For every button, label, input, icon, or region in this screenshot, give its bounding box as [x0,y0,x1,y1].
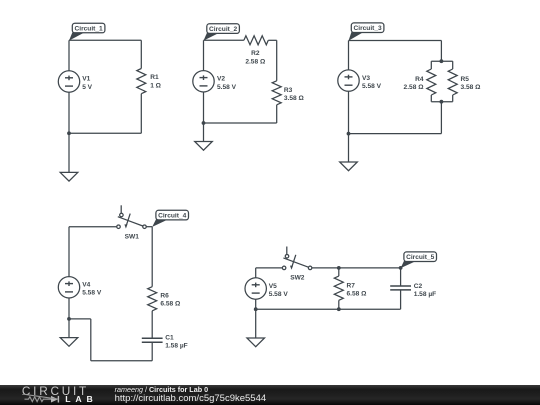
net flag Circuit_5 [401,252,437,268]
voltage source V2 [193,71,214,92]
wire c2 top left [204,39,244,41]
wire c3 parallel bottom bar [431,101,452,103]
wire c5 R7 lead bottom [338,300,340,309]
wire c4 left down [90,319,92,361]
svg-text:5.58 V: 5.58 V [269,291,289,298]
footer title line [115,386,208,393]
svg-text:V4: V4 [82,282,90,289]
junction c3 parallel top [440,59,444,63]
label R3 [284,87,305,102]
wire c5 V5 lead bottom [255,299,257,309]
svg-text:SW2: SW2 [290,275,305,282]
resistor R3 [272,81,281,105]
wire c3 left lower [348,91,350,133]
svg-text:5.58 V: 5.58 V [82,290,102,297]
svg-text:V1: V1 [82,76,90,83]
label SW2 [290,275,305,282]
wire c2 top right [268,39,276,41]
label V1 [82,76,92,91]
wire c3 ground stem [348,134,350,162]
wire c2 right upper [276,40,278,81]
svg-text:R6: R6 [160,293,169,300]
wire c4 left upper [68,227,70,277]
wire c3 R4 lead top [430,61,432,69]
label V3 [362,75,382,90]
svg-text:R5: R5 [461,76,470,83]
svg-text:SW1: SW1 [125,233,140,240]
wire c3 top [349,40,442,42]
wire c1 right lower [140,94,142,134]
logo resistor-diode glyph [22,394,72,405]
svg-text:6.58 Ω: 6.58 Ω [347,291,368,298]
wire c3 mid upper [440,41,442,62]
wire c2 ground stem [203,123,205,142]
net flag Circuit_3 [349,23,384,41]
resistor R5 [448,69,457,95]
junction c3 parallel bottom [440,100,444,104]
wire c3 bottom [349,133,442,135]
wire c3 R4 lead bottom [430,95,432,102]
ground [340,162,358,171]
wire c3 R5 lead bottom [452,95,454,102]
wire c5 ground stem [255,309,257,338]
svg-text:1 Ω: 1 Ω [150,82,161,89]
resistor R7 [334,276,343,300]
voltage source V4 [58,277,79,298]
junction c5 R7 top [337,266,341,270]
svg-text:C1: C1 [165,335,174,342]
label R7 [347,283,368,298]
svg-text:1.58 µF: 1.58 µF [165,343,188,350]
wire c2 bottom [204,122,277,124]
svg-text:Circuit_5: Circuit_5 [406,254,435,261]
junction c2 bottom node [202,121,206,125]
ground [60,338,78,347]
voltage source V5 [245,278,266,299]
resistor R4 [427,69,436,95]
svg-text:V5: V5 [269,283,277,290]
capacitor C2 [390,286,411,290]
label R2 [245,50,266,65]
wire c5 V5 lead top [255,268,257,278]
label C2 [414,283,437,298]
CircuitLab logo CIRCUIT [22,386,89,397]
label C1 [165,335,188,350]
wire c4 right upper [151,227,153,287]
wire c5 top left [256,267,283,269]
svg-text:2.58 Ω: 2.58 Ω [245,58,266,65]
junction c5 R7 bottom [337,307,341,311]
svg-text:Circuit_3: Circuit_3 [353,25,382,32]
wire c4 cap lead bottom [151,342,153,361]
junction c5 flag node [399,266,403,270]
wire c3 mid lower [440,102,442,134]
svg-text:V3: V3 [362,75,370,82]
wire c4 ground stem [68,319,70,338]
wire c5 bottom [256,308,401,310]
wire c1 bottom [69,132,141,134]
svg-text:5 V: 5 V [82,84,92,91]
switch SW2 [282,247,312,270]
ground [195,142,213,151]
junction c1 bottom node [67,131,71,135]
junction c5 left node [254,307,258,311]
svg-text:Circuit_4: Circuit_4 [158,213,187,220]
wire c1 left lower [68,92,70,133]
wire c4 switch to node [146,226,152,228]
label V2 [217,76,237,91]
label V5 [269,283,289,298]
svg-text:6.58 Ω: 6.58 Ω [160,301,181,308]
svg-text:1.58 µF: 1.58 µF [414,291,437,298]
wire c5 C2 lead bottom [400,290,402,309]
wire c3 parallel top bar [431,60,452,62]
wire c4 R6 to C1 [151,311,153,339]
junction c3 bottom node [347,132,351,136]
svg-text:Circuit_1: Circuit_1 [74,26,103,33]
svg-text:R2: R2 [251,50,260,57]
ground [60,172,78,181]
svg-text:R3: R3 [284,87,293,94]
wire c3 R5 lead top [452,61,454,69]
voltage source V3 [338,70,359,91]
svg-text:V2: V2 [217,76,225,83]
voltage source V1 [58,71,79,92]
wire c4 stub right [69,318,91,320]
wire c1 top [69,39,141,41]
switch SW1 [117,205,147,228]
wire c1 left upper [68,40,70,71]
svg-text:2.58 Ω: 2.58 Ω [404,84,425,91]
svg-text:3.58 Ω: 3.58 Ω [284,95,305,102]
wire c5 top right [312,267,401,269]
svg-text:5.58 V: 5.58 V [362,83,382,90]
svg-text:R7: R7 [347,283,356,290]
wire c4 top left [69,226,117,228]
net flag Circuit_1 [69,23,105,40]
wire c4 bottom [91,360,152,362]
wire c3 left upper [348,41,350,70]
wire c1 ground stem [68,133,70,172]
label V4 [82,282,102,297]
wire c5 C2 lead top [400,268,402,286]
capacitor C1 [142,338,163,342]
wire c2 left upper [203,40,205,70]
svg-text:Circuit_2: Circuit_2 [209,26,238,33]
wire c2 left lower [203,92,205,123]
resistor R6 [148,287,157,311]
svg-text:R4: R4 [415,76,424,83]
resistor R2 [244,36,268,45]
svg-text:C2: C2 [414,283,423,290]
label R6 [160,293,181,308]
resistor R1 [137,69,146,94]
net flag Circuit_4 [152,210,188,227]
wire c4 left lower [68,298,70,319]
wire c1 right upper [140,40,142,68]
ground [247,338,265,347]
label R1 [150,74,161,89]
label SW1 [125,233,140,240]
label R4 [404,76,425,91]
svg-text:5.58 V: 5.58 V [217,84,237,91]
wire c2 right lower [276,105,278,123]
svg-text:R1: R1 [150,74,159,81]
footer url line [115,394,267,404]
junction c4 left node [67,317,71,321]
footer bar [0,385,540,405]
svg-text:3.58 Ω: 3.58 Ω [461,84,482,91]
label R5 [461,76,482,91]
wire c5 R7 lead top [338,268,340,276]
CircuitLab logo LAB [65,395,97,403]
net flag Circuit_2 [204,24,240,41]
